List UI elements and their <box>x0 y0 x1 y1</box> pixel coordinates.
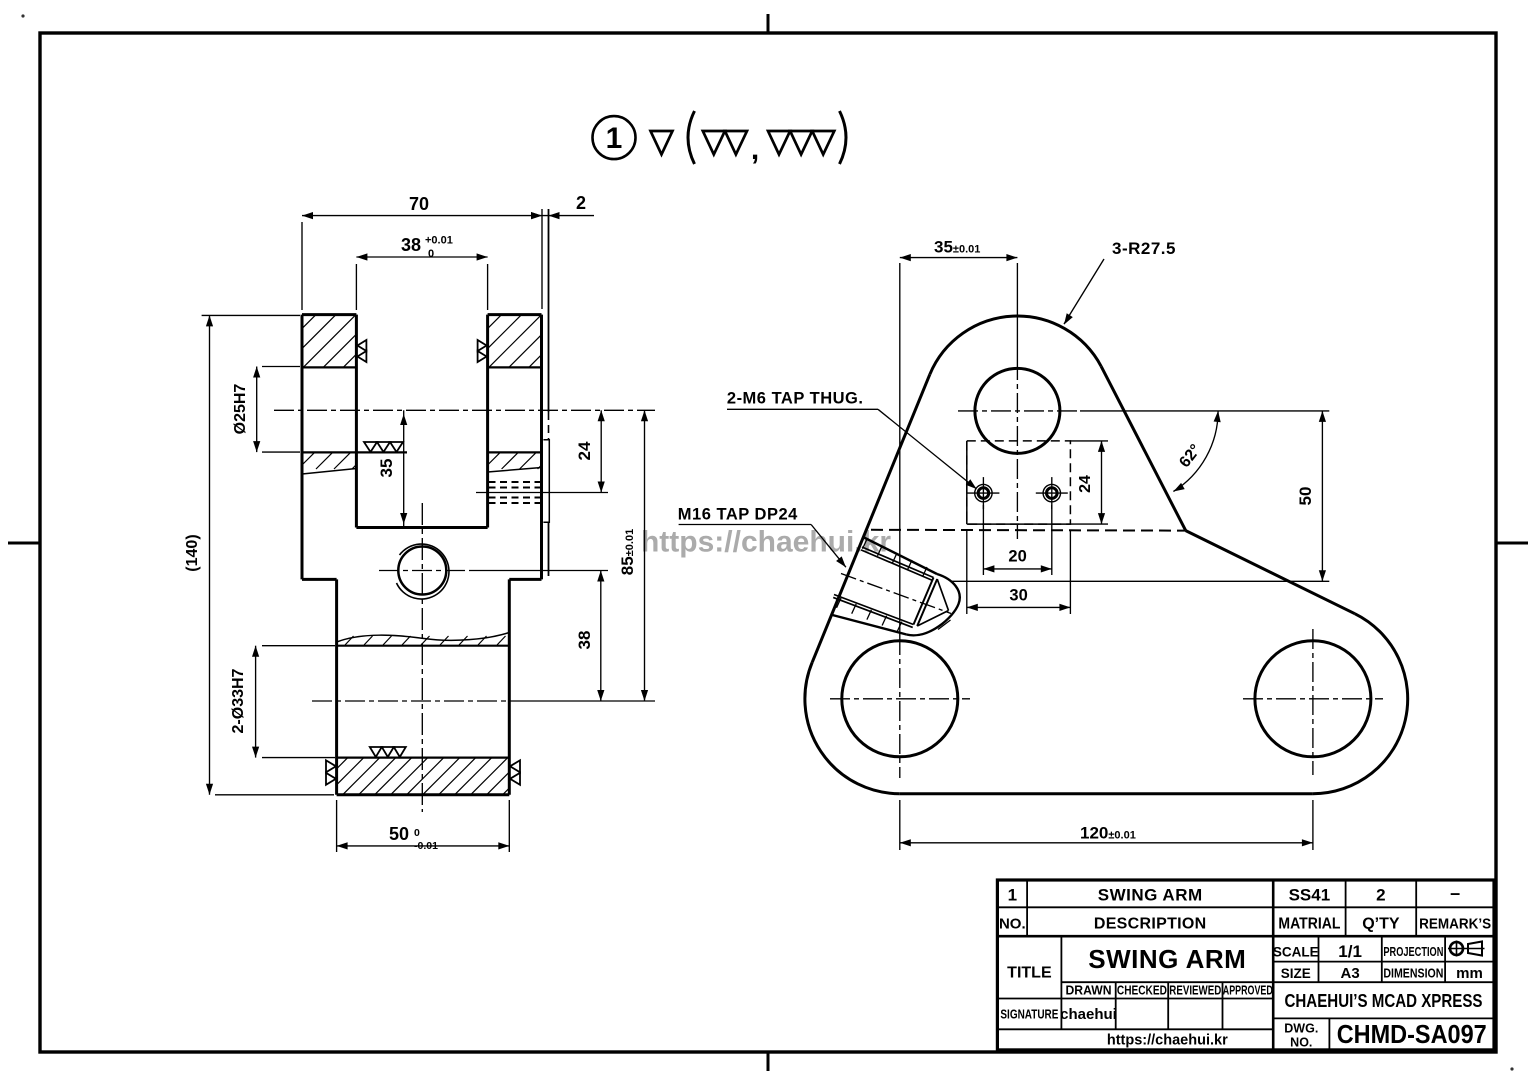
svg-text:1/1: 1/1 <box>1338 942 1362 961</box>
svg-text:24: 24 <box>575 441 594 460</box>
svg-text:DESCRIPTION: DESCRIPTION <box>1094 916 1207 933</box>
svg-text:https://chaehui.kr: https://chaehui.kr <box>641 526 891 559</box>
svg-text:0: 0 <box>428 248 434 260</box>
svg-text:TITLE: TITLE <box>1007 965 1052 982</box>
svg-text:Ø25H7: Ø25H7 <box>232 384 249 435</box>
svg-text:NO.: NO. <box>999 916 1026 933</box>
svg-text:2-M6 TAP THUG.: 2-M6 TAP THUG. <box>727 390 864 408</box>
svg-text:NO.: NO. <box>1290 1036 1312 1050</box>
svg-text:-0.01: -0.01 <box>414 840 438 852</box>
svg-text:38: 38 <box>401 235 421 255</box>
svg-text:1: 1 <box>1008 886 1017 905</box>
svg-text:CHAEHUI’S MCAD XPRESS: CHAEHUI’S MCAD XPRESS <box>1285 991 1483 1011</box>
svg-text:DRAWN: DRAWN <box>1066 984 1112 998</box>
svg-text:CHMD-SA097: CHMD-SA097 <box>1337 1019 1487 1049</box>
svg-text:DWG.: DWG. <box>1284 1022 1318 1036</box>
svg-text:Q’TY: Q’TY <box>1362 916 1400 933</box>
svg-text:35: 35 <box>377 459 396 478</box>
svg-text:(140): (140) <box>184 534 201 571</box>
svg-text:SWING ARM: SWING ARM <box>1088 944 1246 974</box>
svg-text:MATRIAL: MATRIAL <box>1278 916 1340 933</box>
svg-text:120±0.01: 120±0.01 <box>1080 824 1136 843</box>
svg-text:,: , <box>751 133 759 166</box>
svg-text:50: 50 <box>389 824 409 844</box>
svg-text:2: 2 <box>1376 886 1385 905</box>
svg-text:0: 0 <box>414 827 420 839</box>
svg-text:chaehui: chaehui <box>1060 1006 1117 1023</box>
svg-text:APPROVED: APPROVED <box>1223 984 1273 998</box>
svg-text:85±0.01: 85±0.01 <box>618 529 637 575</box>
svg-text:SS41: SS41 <box>1289 886 1331 905</box>
svg-text:35±0.01: 35±0.01 <box>934 238 980 257</box>
svg-text:CHECKED: CHECKED <box>1117 984 1167 998</box>
svg-text:–: – <box>1450 883 1460 903</box>
svg-text:SIGNATURE: SIGNATURE <box>1000 1008 1058 1022</box>
svg-text:SWING ARM: SWING ARM <box>1098 886 1203 905</box>
svg-text:30: 30 <box>1009 587 1027 605</box>
svg-text:A3: A3 <box>1341 965 1360 982</box>
svg-text:3-R27.5: 3-R27.5 <box>1112 239 1176 258</box>
svg-text:REVIEWED: REVIEWED <box>1169 984 1221 998</box>
svg-text:2-Ø33H7: 2-Ø33H7 <box>230 668 247 733</box>
svg-text:SCALE: SCALE <box>1273 945 1319 960</box>
svg-text:PROJECTION: PROJECTION <box>1383 945 1443 959</box>
svg-text:2: 2 <box>576 193 586 213</box>
svg-text:DIMENSION: DIMENSION <box>1383 967 1443 981</box>
svg-text:mm: mm <box>1456 965 1483 982</box>
svg-text:+0.01: +0.01 <box>425 235 453 247</box>
svg-text:M16 TAP DP24: M16 TAP DP24 <box>678 506 798 524</box>
svg-text:20: 20 <box>1008 548 1026 566</box>
svg-text:SIZE: SIZE <box>1281 966 1311 981</box>
svg-text:1: 1 <box>606 122 623 155</box>
svg-text:70: 70 <box>409 194 429 214</box>
svg-text:REMARK’S: REMARK’S <box>1419 917 1491 933</box>
svg-text:24: 24 <box>1077 475 1094 493</box>
svg-text:38: 38 <box>575 631 594 650</box>
svg-text:50: 50 <box>1296 487 1315 506</box>
svg-text:https://chaehui.kr: https://chaehui.kr <box>1107 1033 1228 1049</box>
